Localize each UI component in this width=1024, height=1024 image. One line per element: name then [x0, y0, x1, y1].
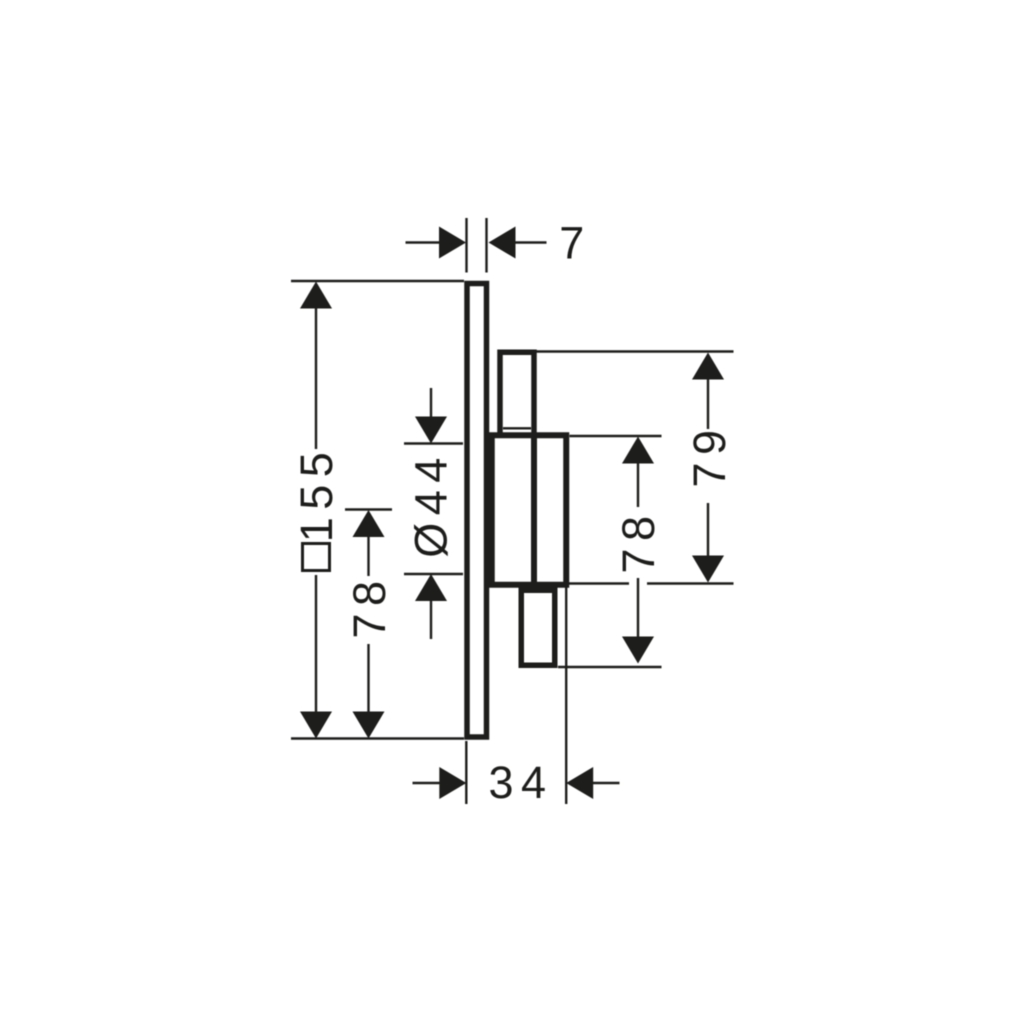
svg-text:7: 7: [559, 218, 592, 269]
svg-text:79: 79: [684, 422, 735, 487]
svg-text:78: 78: [613, 508, 664, 573]
svg-text:34: 34: [488, 757, 553, 808]
svg-text:155: 155: [291, 445, 342, 543]
svg-text:78: 78: [344, 573, 395, 638]
svg-text:Ø44: Ø44: [406, 450, 457, 558]
